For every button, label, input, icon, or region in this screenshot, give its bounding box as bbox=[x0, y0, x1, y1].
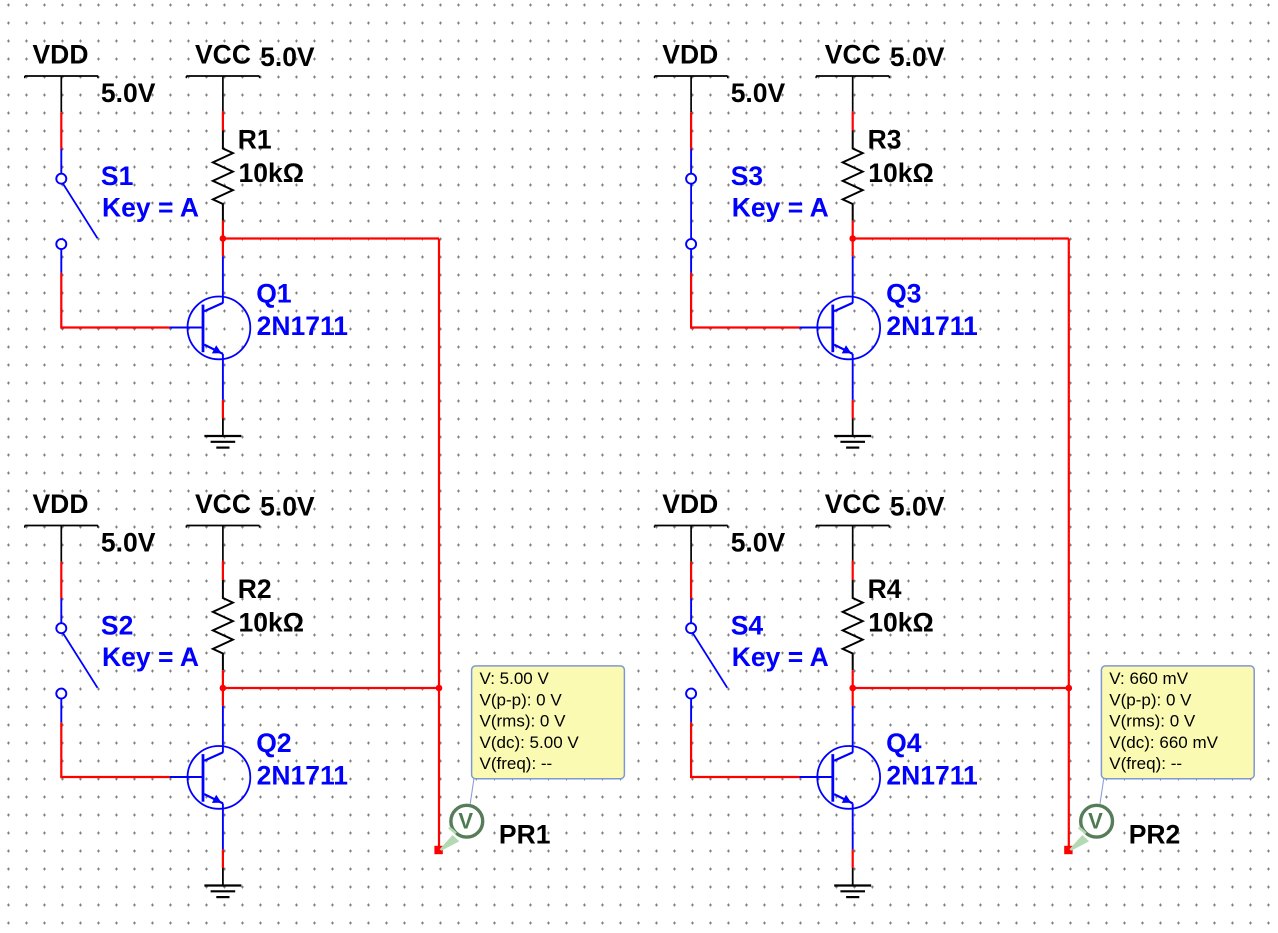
svg-text:Q2: Q2 bbox=[256, 728, 291, 758]
wire VDD stem bbox=[60, 562, 62, 624]
svg-text:2N1711: 2N1711 bbox=[886, 311, 977, 341]
svg-text:V(dc): 5.00 V: V(dc): 5.00 V bbox=[480, 733, 580, 752]
svg-text:10kΩ: 10kΩ bbox=[239, 158, 304, 188]
node junction at PR2 tap bbox=[1066, 685, 1073, 692]
svg-text:R2: R2 bbox=[238, 574, 272, 604]
svg-text:V(p-p): 0 V: V(p-p): 0 V bbox=[1109, 690, 1192, 709]
svg-text:Key = A: Key = A bbox=[732, 642, 829, 672]
wire emitter to ground bbox=[852, 354, 854, 419]
wire probe column net bbox=[1068, 239, 1070, 851]
wire node to collector bbox=[222, 688, 224, 753]
svg-text:V: V bbox=[1088, 808, 1103, 833]
wire VCC to R bbox=[222, 561, 224, 580]
wire probe column net bbox=[438, 239, 440, 851]
wire node to probe column bbox=[853, 687, 1069, 689]
node junction at PR1 tap bbox=[436, 685, 443, 692]
transistor Q3 2N1711 (NPN) bbox=[817, 278, 977, 359]
svg-text:5.0V: 5.0V bbox=[101, 78, 156, 108]
switch S4 (SPST, Key = A) bbox=[686, 611, 829, 699]
svg-text:Key = A: Key = A bbox=[102, 193, 199, 223]
resistor R4 10k bbox=[843, 574, 934, 671]
resistor R1 10k bbox=[213, 124, 304, 221]
measurement box PR2 bbox=[1101, 666, 1254, 779]
callout line PR1 bbox=[470, 778, 474, 804]
wire VCC to R bbox=[222, 111, 224, 130]
switch S2 (SPST, Key = A) bbox=[56, 611, 199, 699]
wire R to collector node bbox=[222, 670, 224, 688]
node junction Q2 collector bbox=[220, 685, 227, 692]
probe PR1 (voltage) bbox=[440, 805, 551, 851]
transistor Q1 2N1711 (NPN) bbox=[188, 278, 348, 359]
svg-text:R3: R3 bbox=[868, 124, 902, 154]
svg-text:Q3: Q3 bbox=[886, 278, 921, 308]
svg-text:V: 660 mV: V: 660 mV bbox=[1109, 669, 1188, 688]
wire emitter to ground bbox=[222, 354, 224, 419]
svg-text:PR1: PR1 bbox=[499, 820, 551, 850]
svg-text:VDD: VDD bbox=[33, 489, 89, 519]
svg-text:V(p-p): 0 V: V(p-p): 0 V bbox=[480, 690, 563, 709]
wire emitter to ground bbox=[222, 803, 224, 868]
svg-text:V: V bbox=[458, 808, 473, 833]
svg-text:R4: R4 bbox=[868, 574, 902, 604]
wire R to collector node bbox=[852, 221, 854, 239]
wire VDD stem bbox=[60, 112, 62, 174]
wire R to collector node bbox=[222, 221, 224, 239]
wire R to collector node bbox=[852, 670, 854, 688]
wire node to collector bbox=[852, 688, 854, 753]
svg-text:5.0V: 5.0V bbox=[890, 492, 945, 522]
wire node to collector bbox=[222, 239, 224, 304]
svg-text:2N1711: 2N1711 bbox=[886, 760, 977, 790]
wire switch to Q base bbox=[61, 699, 202, 777]
svg-text:Q4: Q4 bbox=[886, 728, 922, 758]
svg-text:S2: S2 bbox=[101, 611, 133, 641]
svg-text:V(dc): 660 mV: V(dc): 660 mV bbox=[1109, 733, 1218, 752]
power VCC (R1 branch) bbox=[186, 40, 315, 112]
node junction Q4 collector bbox=[849, 685, 856, 692]
svg-text:VCC: VCC bbox=[195, 489, 251, 519]
svg-text:5.0V: 5.0V bbox=[890, 42, 945, 72]
callout line PR2 bbox=[1100, 778, 1104, 804]
wire emitter to ground bbox=[852, 803, 854, 868]
wire switch to Q base bbox=[691, 249, 832, 327]
svg-text:VCC: VCC bbox=[825, 40, 881, 70]
power VDD (S2 branch) bbox=[25, 489, 156, 562]
svg-text:V: 5.00 V: V: 5.00 V bbox=[480, 669, 550, 688]
node junction Q1 collector bbox=[220, 235, 227, 242]
wire node to probe column bbox=[853, 237, 1069, 239]
svg-text:VDD: VDD bbox=[662, 40, 718, 70]
svg-text:5.0V: 5.0V bbox=[260, 42, 315, 72]
svg-text:Q1: Q1 bbox=[256, 278, 291, 308]
svg-text:V(freq): --: V(freq): -- bbox=[1109, 754, 1182, 773]
svg-text:VCC: VCC bbox=[825, 489, 881, 519]
svg-text:V(freq): --: V(freq): -- bbox=[480, 754, 553, 773]
power VCC (R3 branch) bbox=[816, 40, 945, 112]
svg-text:VDD: VDD bbox=[33, 40, 89, 70]
wire endpoint terminal bbox=[1064, 846, 1072, 854]
svg-text:2N1711: 2N1711 bbox=[257, 760, 348, 790]
ground (Q2 emitter) bbox=[204, 868, 241, 897]
svg-text:VDD: VDD bbox=[662, 489, 718, 519]
ground (Q4 emitter) bbox=[834, 868, 871, 897]
power VDD (S1 branch) bbox=[25, 40, 156, 113]
power VCC (R2 branch) bbox=[186, 489, 315, 561]
svg-text:Key = A: Key = A bbox=[732, 193, 829, 223]
svg-text:S3: S3 bbox=[731, 161, 763, 191]
svg-text:10kΩ: 10kΩ bbox=[868, 158, 933, 188]
svg-text:5.0V: 5.0V bbox=[260, 492, 315, 522]
svg-text:S4: S4 bbox=[731, 611, 764, 641]
svg-text:10kΩ: 10kΩ bbox=[239, 607, 304, 637]
svg-text:VCC: VCC bbox=[195, 40, 251, 70]
ground (Q3 emitter) bbox=[834, 419, 871, 448]
wire node to probe column bbox=[223, 687, 439, 689]
transistor Q2 2N1711 (NPN) bbox=[188, 728, 348, 809]
svg-text:5.0V: 5.0V bbox=[101, 528, 156, 558]
svg-text:R1: R1 bbox=[238, 124, 272, 154]
wire VCC to R bbox=[852, 561, 854, 580]
svg-text:10kΩ: 10kΩ bbox=[868, 607, 933, 637]
svg-text:S1: S1 bbox=[101, 161, 133, 191]
wire endpoint terminal bbox=[434, 846, 442, 854]
wire node to collector bbox=[852, 239, 854, 304]
measurement box PR1 bbox=[472, 666, 625, 779]
svg-text:5.0V: 5.0V bbox=[731, 78, 786, 108]
power VDD (S3 branch) bbox=[655, 40, 786, 113]
node junction Q3 collector bbox=[849, 235, 856, 242]
wire VCC to R bbox=[852, 111, 854, 130]
svg-text:Key = A: Key = A bbox=[102, 642, 199, 672]
svg-text:2N1711: 2N1711 bbox=[257, 311, 348, 341]
transistor Q4 2N1711 (NPN) bbox=[817, 728, 977, 809]
power VCC (R4 branch) bbox=[816, 489, 945, 561]
resistor R2 10k bbox=[213, 574, 304, 671]
wire VDD stem bbox=[690, 562, 692, 624]
switch S3 (SPST, Key = A) bbox=[686, 161, 829, 249]
wire VDD stem bbox=[690, 112, 692, 174]
wire switch to Q base bbox=[691, 699, 832, 777]
svg-text:PR2: PR2 bbox=[1129, 820, 1181, 850]
resistor R3 10k bbox=[843, 124, 934, 221]
svg-text:5.0V: 5.0V bbox=[731, 528, 786, 558]
switch S1 (SPST, Key = A) bbox=[56, 161, 199, 249]
wire node to probe column bbox=[223, 237, 439, 239]
probe PR2 (voltage) bbox=[1069, 805, 1180, 851]
svg-text:V(rms): 0 V: V(rms): 0 V bbox=[480, 712, 567, 731]
ground (Q1 emitter) bbox=[204, 419, 241, 448]
svg-text:V(rms): 0 V: V(rms): 0 V bbox=[1109, 712, 1196, 731]
wire switch to Q base bbox=[61, 249, 202, 327]
power VDD (S4 branch) bbox=[655, 489, 786, 562]
